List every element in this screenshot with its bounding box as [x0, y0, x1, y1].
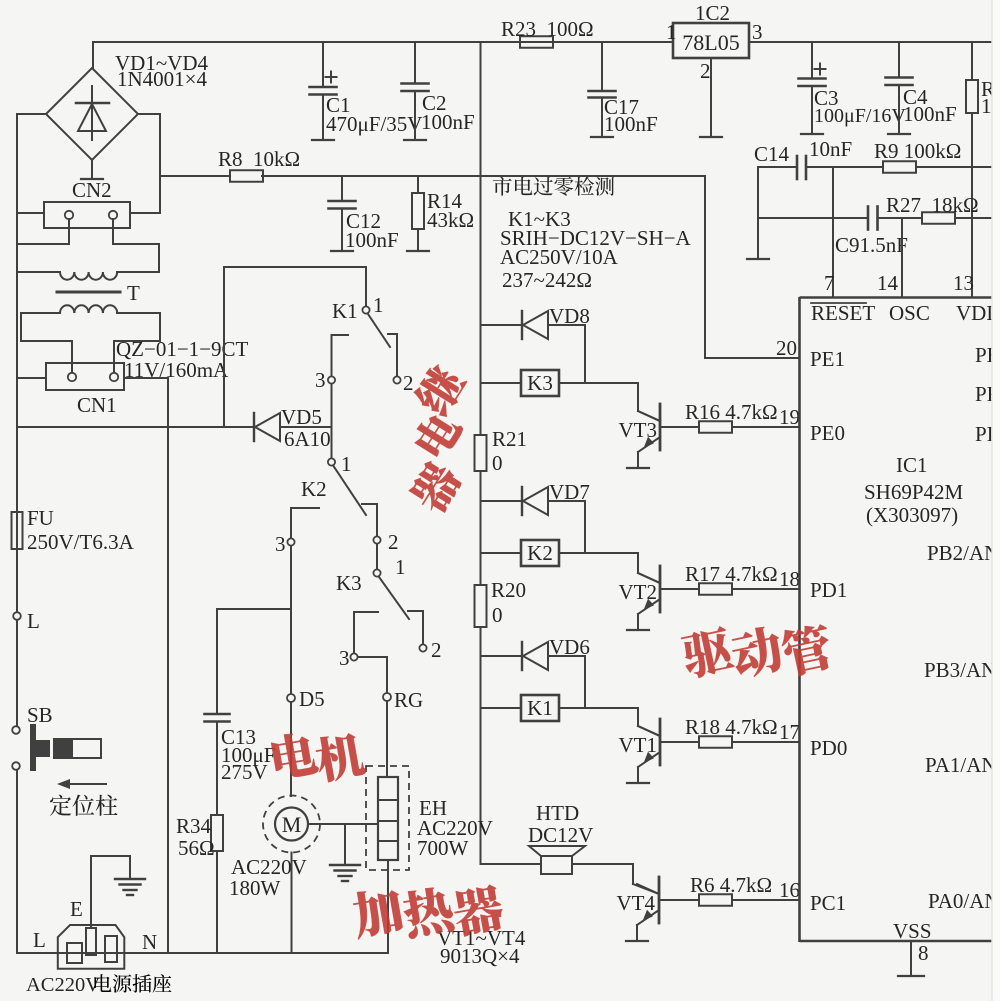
wire R6 to IC	[732, 899, 799, 901]
label VD1~VD4	[115, 51, 209, 75]
svg-text:R18 4.7kΩ: R18 4.7kΩ	[685, 715, 778, 739]
wire motor earth tap	[344, 824, 346, 864]
resistor R18	[699, 736, 732, 748]
label VD5	[281, 405, 322, 429]
label VD8	[549, 304, 590, 328]
label R20 zero	[492, 603, 503, 627]
svg-text:16: 16	[779, 878, 800, 902]
label R23	[501, 17, 594, 41]
svg-text:1N4001×4: 1N4001×4	[117, 67, 208, 91]
wire VSS pin8	[898, 942, 924, 976]
label PE0	[810, 421, 845, 445]
label R9	[874, 139, 961, 163]
socket prong L	[67, 943, 82, 963]
label VD7	[549, 480, 590, 504]
svg-text:C91.5nF: C91.5nF	[835, 233, 908, 257]
svg-text:VT4: VT4	[617, 891, 656, 915]
switch K3 arm	[379, 577, 409, 619]
label C2	[422, 91, 447, 115]
svg-text:DC12V: DC12V	[528, 823, 593, 847]
svg-text:PI: PI	[975, 422, 994, 446]
wire R18 to IC	[732, 741, 799, 743]
svg-text:D5: D5	[299, 687, 325, 711]
svg-text:FU: FU	[27, 506, 54, 530]
svg-text:VSS: VSS	[893, 919, 932, 943]
label pin 19	[779, 405, 800, 429]
svg-text:CN2: CN2	[72, 178, 112, 202]
label VT3	[619, 418, 658, 442]
label K3-1	[395, 555, 406, 579]
wire R9 row	[806, 166, 991, 168]
svg-text:K2: K2	[527, 541, 553, 565]
svg-text:1: 1	[395, 555, 406, 579]
wire VT1 base	[660, 741, 699, 743]
label K2-3	[275, 532, 286, 556]
diode VD6	[481, 642, 586, 670]
regulator IC2 78L05 box	[673, 23, 749, 58]
switch K1 arm	[368, 314, 390, 347]
svg-text:T: T	[127, 281, 140, 305]
label VSS	[893, 919, 932, 943]
svg-text:VT1: VT1	[619, 733, 658, 757]
label K2 switch	[301, 477, 327, 501]
svg-text:C14: C14	[754, 142, 790, 166]
label PE1	[810, 347, 845, 371]
label N socket	[142, 930, 157, 954]
red label heater (jia)	[350, 885, 405, 940]
switch K1 contact 2	[388, 334, 401, 384]
switch SB contact top	[12, 726, 20, 734]
switch K2 arm	[334, 466, 367, 515]
wire R17 to IC	[732, 588, 799, 590]
switch K2 contact 3	[287, 508, 319, 546]
wire K1 to collector	[559, 708, 660, 736]
label pin 8	[918, 941, 929, 965]
red label heater (qi2)	[451, 883, 506, 937]
svg-text:VD6: VD6	[549, 635, 590, 659]
svg-text:VD8: VD8	[549, 304, 590, 328]
capacitor C12	[329, 176, 356, 251]
wire zero-cross to PE1	[705, 176, 799, 358]
pin CN1 left	[68, 373, 76, 381]
svg-text:700W: 700W	[417, 836, 469, 860]
transformer T primary winding	[17, 272, 159, 280]
label K1-1	[373, 293, 384, 317]
pin CN2 right	[109, 211, 117, 219]
fuse FU	[12, 512, 23, 549]
label K3	[527, 371, 553, 395]
svg-text:78L05: 78L05	[682, 30, 739, 55]
switch K1 contact 3	[328, 335, 348, 384]
svg-text:AC250V/10A: AC250V/10A	[500, 245, 619, 269]
svg-text:R9 100kΩ: R9 100kΩ	[874, 139, 961, 163]
svg-text:100nF: 100nF	[345, 228, 399, 252]
label PD1	[810, 578, 847, 602]
wire C13 to R34	[216, 722, 218, 816]
label PB2/AN	[927, 541, 999, 565]
svg-text:R8 10kΩ: R8 10kΩ	[218, 147, 300, 171]
label C3	[814, 86, 839, 110]
red label relay (dian)	[410, 407, 465, 461]
svg-text:3: 3	[275, 532, 286, 556]
svg-text:SB: SB	[27, 703, 53, 727]
label motor 180W	[229, 876, 281, 900]
red label relay (ji)	[410, 360, 470, 420]
wire relay common feed	[224, 267, 366, 427]
capacitor C2	[402, 42, 429, 140]
node D5	[287, 694, 295, 702]
svg-text:17: 17	[779, 720, 800, 744]
wire CN2 right pin drop	[113, 219, 159, 272]
label D5	[299, 687, 325, 711]
capacitor C4	[886, 42, 913, 134]
svg-text:PD1: PD1	[810, 578, 847, 602]
wire VT3 base	[660, 426, 699, 428]
capacitor C9	[868, 207, 878, 230]
motor M dashed circle	[263, 796, 320, 853]
svg-text:M: M	[282, 812, 302, 837]
capacitor C17	[589, 42, 616, 137]
red label driver (qu)	[679, 625, 736, 680]
svg-text:N: N	[142, 930, 157, 954]
heater EH element	[378, 777, 398, 860]
wire CN2 left pin drop	[17, 219, 69, 244]
label AC220V socket	[26, 974, 171, 996]
svg-text:2: 2	[431, 638, 442, 662]
bridge rectifier VD1~VD4 diamond	[46, 68, 138, 160]
label VT2	[619, 580, 658, 604]
label R17	[685, 562, 778, 586]
wire heater down	[387, 860, 389, 953]
svg-text:3: 3	[339, 646, 350, 670]
svg-text:R27 18kΩ: R27 18kΩ	[886, 193, 979, 217]
label R18	[685, 715, 778, 739]
IC1 SH69P42M box	[800, 297, 1000, 942]
wire CN2 left entry	[17, 212, 44, 214]
wire L bus left vertical	[16, 114, 18, 953]
wire VT2 base	[660, 588, 699, 590]
wire C13 branch	[217, 609, 291, 713]
connector CN1 box	[46, 363, 124, 390]
wire bus to K1	[481, 707, 522, 709]
label PA0/AN	[928, 889, 1000, 913]
svg-text:18: 18	[779, 567, 800, 591]
wire CN2 right entry	[130, 212, 160, 214]
label R16	[685, 400, 778, 424]
label PD0	[810, 736, 847, 760]
svg-text:RG: RG	[394, 688, 423, 712]
label C17	[604, 95, 639, 119]
label VD6	[549, 635, 590, 659]
transistor VT1	[638, 719, 660, 767]
svg-text:7: 7	[824, 271, 835, 295]
svg-text:6A10: 6A10	[284, 427, 331, 451]
label C12 value	[345, 228, 399, 252]
svg-text:2: 2	[403, 371, 414, 395]
svg-text:SH69P42M: SH69P42M	[864, 480, 964, 504]
svg-text:HTD: HTD	[536, 801, 579, 825]
svg-text:9013Q×4: 9013Q×4	[440, 944, 520, 968]
label 1N4001x4	[117, 67, 208, 91]
svg-text:1: 1	[373, 293, 384, 317]
label CN1	[77, 393, 117, 417]
red label driver (dong)	[729, 624, 786, 681]
wire bridge DC- stub	[81, 160, 103, 179]
label PC1	[810, 891, 846, 915]
relay coil K2 box	[521, 540, 559, 566]
red label driver (guan)	[779, 621, 836, 678]
bridge inner diode symbol	[76, 86, 109, 140]
transistor VT4	[637, 877, 659, 925]
label EH 700W	[417, 836, 469, 860]
svg-text:100nF: 100nF	[421, 110, 475, 134]
label QZ-01-1-9CT	[116, 337, 249, 361]
label PF right	[975, 382, 998, 406]
label K2	[527, 541, 553, 565]
red label relay (qi)	[405, 457, 465, 517]
wire VT4 base	[659, 899, 699, 901]
svg-text:K2: K2	[301, 477, 327, 501]
label 11V/160mA	[124, 358, 229, 382]
label C2 value	[421, 110, 475, 134]
earth ground near motor	[330, 865, 360, 881]
pin CN2 left	[65, 211, 73, 219]
label RESET with overline	[811, 301, 875, 325]
label K1~K3	[508, 207, 571, 231]
socket prong N	[105, 936, 117, 962]
wire bus to HTD	[481, 863, 542, 865]
svg-text:PB2/AN: PB2/AN	[927, 541, 999, 565]
svg-text:43kΩ: 43kΩ	[427, 208, 474, 232]
label pin 17	[779, 720, 800, 744]
earth ground E	[115, 879, 145, 895]
wire CN1 right entry	[124, 377, 168, 379]
arrow left	[57, 779, 106, 789]
node RG	[383, 693, 391, 701]
svg-text:13: 13	[953, 271, 974, 295]
pin 2 label	[700, 59, 711, 83]
label 6A10	[284, 427, 331, 451]
wire bus to K3	[481, 382, 522, 384]
wire CN1 left entry	[17, 377, 46, 379]
diode VD8	[481, 311, 586, 339]
transistor VT3	[638, 404, 660, 452]
label C14	[754, 142, 790, 166]
label AC250V/10A	[500, 245, 619, 269]
svg-text:R34: R34	[176, 814, 212, 838]
label OSC	[889, 301, 930, 325]
label K3 switch	[336, 571, 362, 595]
relay coil K1 box	[521, 695, 559, 721]
label R21	[492, 427, 527, 451]
label SH69P42M	[864, 480, 964, 504]
svg-text:20: 20	[776, 336, 797, 360]
resistor R1 right edge	[966, 42, 978, 297]
label mains zero-cross detect	[493, 177, 614, 196]
label R34	[176, 814, 212, 838]
resistor R23	[505, 36, 600, 48]
wire K3 to collector	[559, 383, 660, 421]
label R34 value	[178, 836, 215, 860]
label C4	[903, 85, 928, 109]
svg-text:100nF: 100nF	[903, 102, 957, 126]
terminal L	[13, 612, 21, 620]
svg-text:19: 19	[779, 405, 800, 429]
label R1 value	[981, 94, 1000, 118]
heater EH dashed box	[366, 766, 409, 870]
wire R27 row left	[758, 217, 867, 219]
label EH	[419, 796, 447, 820]
wire VD8 to collector node	[584, 325, 586, 383]
connector CN2 box	[44, 202, 130, 228]
resistor R14	[407, 176, 429, 251]
svg-text:RESET: RESET	[811, 301, 875, 325]
svg-text:1: 1	[341, 452, 352, 476]
label DC12V	[528, 823, 593, 847]
wire VT2 emitter ground	[627, 614, 649, 630]
svg-text:PE0: PE0	[810, 421, 845, 445]
svg-text:10nF: 10nF	[809, 137, 852, 161]
svg-text:250V/T6.3A: 250V/T6.3A	[27, 530, 135, 554]
red label heater (re)	[400, 884, 456, 939]
svg-text:L: L	[33, 928, 46, 952]
label R8	[218, 147, 300, 171]
wire N vertical	[167, 378, 169, 953]
svg-text:3: 3	[752, 20, 763, 44]
wire RG to heater	[386, 701, 388, 777]
label 1C2	[695, 1, 730, 25]
label C17 value	[604, 112, 658, 136]
label T	[127, 281, 140, 305]
svg-text:8: 8	[918, 941, 929, 965]
resistor R27	[922, 212, 955, 224]
wire K2-3 down to D5	[290, 546, 292, 694]
label 9013Qx4	[440, 944, 520, 968]
svg-text:237~242Ω: 237~242Ω	[502, 268, 592, 292]
wire E to earth	[91, 856, 130, 928]
svg-text:VT2: VT2	[619, 580, 658, 604]
svg-text:R16 4.7kΩ: R16 4.7kΩ	[685, 400, 778, 424]
svg-text:1: 1	[666, 20, 677, 44]
svg-text:470μF/35V: 470μF/35V	[326, 112, 422, 136]
wire C14 left node	[747, 167, 796, 259]
label K1-3	[315, 368, 326, 392]
svg-text:0: 0	[492, 603, 503, 627]
wire +12V top rail	[93, 41, 991, 43]
label R21 zero	[492, 451, 503, 475]
label C14 value	[809, 137, 852, 161]
label C12	[346, 209, 381, 233]
label positioning post	[50, 795, 118, 816]
label FU value	[27, 530, 135, 554]
label K3-2	[431, 638, 442, 662]
svg-text:R6 4.7kΩ: R6 4.7kΩ	[690, 873, 772, 897]
label K2-2	[388, 530, 399, 554]
label R14	[427, 189, 463, 213]
label pin 16	[779, 878, 800, 902]
label L socket	[33, 928, 46, 952]
svg-text:2: 2	[388, 530, 399, 554]
wire bridge top riser	[92, 42, 94, 68]
svg-text:L: L	[27, 609, 40, 633]
label C13	[221, 725, 256, 749]
wire mains bottom bus	[17, 952, 388, 954]
wire secondary loop	[21, 313, 160, 373]
label PE right	[975, 343, 1000, 367]
label VDD	[956, 301, 1000, 325]
label X303097	[866, 503, 958, 527]
svg-text:2: 2	[700, 59, 711, 83]
label VT1	[619, 733, 658, 757]
svg-text:180W: 180W	[229, 876, 281, 900]
wire VD7 to collector node	[584, 501, 586, 553]
wire K3-3 to RG	[358, 657, 387, 693]
wire 12V bus	[480, 42, 482, 864]
svg-text:K3: K3	[336, 571, 362, 595]
wire IC2 pin2 ground	[700, 58, 722, 137]
label pin 14	[877, 271, 899, 295]
label SRIH	[500, 226, 692, 250]
label pin 7	[824, 271, 835, 295]
label K1	[527, 696, 553, 720]
label C13 value2	[221, 760, 268, 784]
wire bus to K2	[481, 552, 522, 554]
pin 1 label	[666, 20, 677, 44]
svg-text:OSC: OSC	[889, 301, 930, 325]
resistor R20	[475, 585, 487, 627]
label VT1~VT4	[437, 926, 526, 950]
svg-text:PB3/AN: PB3/AN	[924, 658, 996, 682]
wire R8 row	[160, 175, 705, 177]
label motor AC220V	[231, 855, 307, 879]
wire bridge right	[138, 114, 160, 213]
resistor R17	[699, 583, 732, 595]
socket plug body	[58, 925, 125, 969]
label C4 value	[903, 102, 957, 126]
wire VT4 emitter ground	[626, 925, 648, 941]
label K2-1	[341, 452, 352, 476]
wire VT3 emitter ground	[627, 452, 649, 468]
label R27	[886, 193, 979, 217]
label PI right	[975, 422, 994, 446]
svg-text:R17 4.7kΩ: R17 4.7kΩ	[685, 562, 778, 586]
relay coil K3 box	[521, 370, 559, 396]
resistor R21	[475, 435, 487, 471]
resistor R6	[699, 894, 732, 906]
pin 3 label	[752, 20, 763, 44]
label CN2	[72, 178, 112, 202]
svg-text:E: E	[70, 897, 83, 921]
wire K2 to collector	[559, 553, 660, 583]
svg-text:56Ω: 56Ω	[178, 836, 215, 860]
image margin	[992, 0, 1000, 1001]
capacitor C3	[799, 42, 826, 134]
label K1-2	[403, 371, 414, 395]
svg-text:275V: 275V	[221, 760, 268, 784]
svg-text:3: 3	[315, 368, 326, 392]
label C9	[835, 233, 908, 257]
label PA1/AN	[925, 753, 997, 777]
resistor R16	[699, 421, 732, 433]
label EH AC220V	[417, 816, 493, 840]
red label motor (ji)	[313, 730, 367, 783]
svg-text:VD7: VD7	[549, 480, 590, 504]
svg-text:100nF: 100nF	[604, 112, 658, 136]
svg-text:VT3: VT3	[619, 418, 658, 442]
wire motor right	[308, 823, 378, 825]
svg-text:PC1: PC1	[810, 891, 846, 915]
pushbutton SB plunger	[30, 724, 50, 771]
